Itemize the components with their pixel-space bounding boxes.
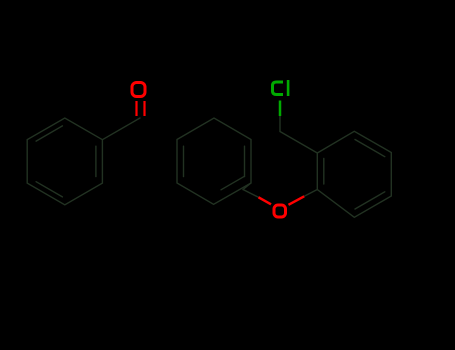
black half of Ea-O bond: [243, 190, 259, 198]
green half of CH2-Cl bond: [279, 101, 282, 117]
red C=O double bond bars: [137, 101, 145, 116]
central ring edges: [177, 118, 251, 204]
black half of CH2-Cl bond: [279, 116, 281, 132]
left phenyl ring: [27, 118, 140, 205]
inner aromatic line L3L4: [36, 182, 62, 197]
Cl label letter C: [273, 82, 284, 95]
central ring: [177, 118, 251, 204]
Cl label letter l: [287, 80, 290, 96]
black half of O-V2 bond: [304, 190, 317, 197]
left ring edges: [27, 118, 102, 205]
bond CH2-V1: [280, 132, 317, 154]
right ring edges: [317, 131, 391, 217]
inner aromatic line R3R4: [244, 146, 246, 176]
inner aromatic line L5L6: [36, 126, 62, 141]
inner aromatic line L1L2: [95, 146, 97, 176]
inner aromatic line V4B: [355, 192, 385, 209]
carbon skeleton: [27, 116, 391, 217]
red half of O-V2 bond: [289, 196, 305, 205]
right ring: [317, 131, 391, 217]
red half of Ea-O bond: [259, 197, 272, 204]
connector R4-Ea: [243, 183, 251, 190]
inner aromatic line R4R5: [221, 176, 244, 190]
inner aromatic line R6R1: [183, 146, 185, 176]
ketone O label: [132, 83, 145, 97]
inner aromatic line TV3: [355, 140, 385, 157]
inner aromatic line V1V2: [323, 159, 325, 185]
ether O label: [274, 205, 286, 217]
wire C1-L1: [102, 118, 140, 140]
